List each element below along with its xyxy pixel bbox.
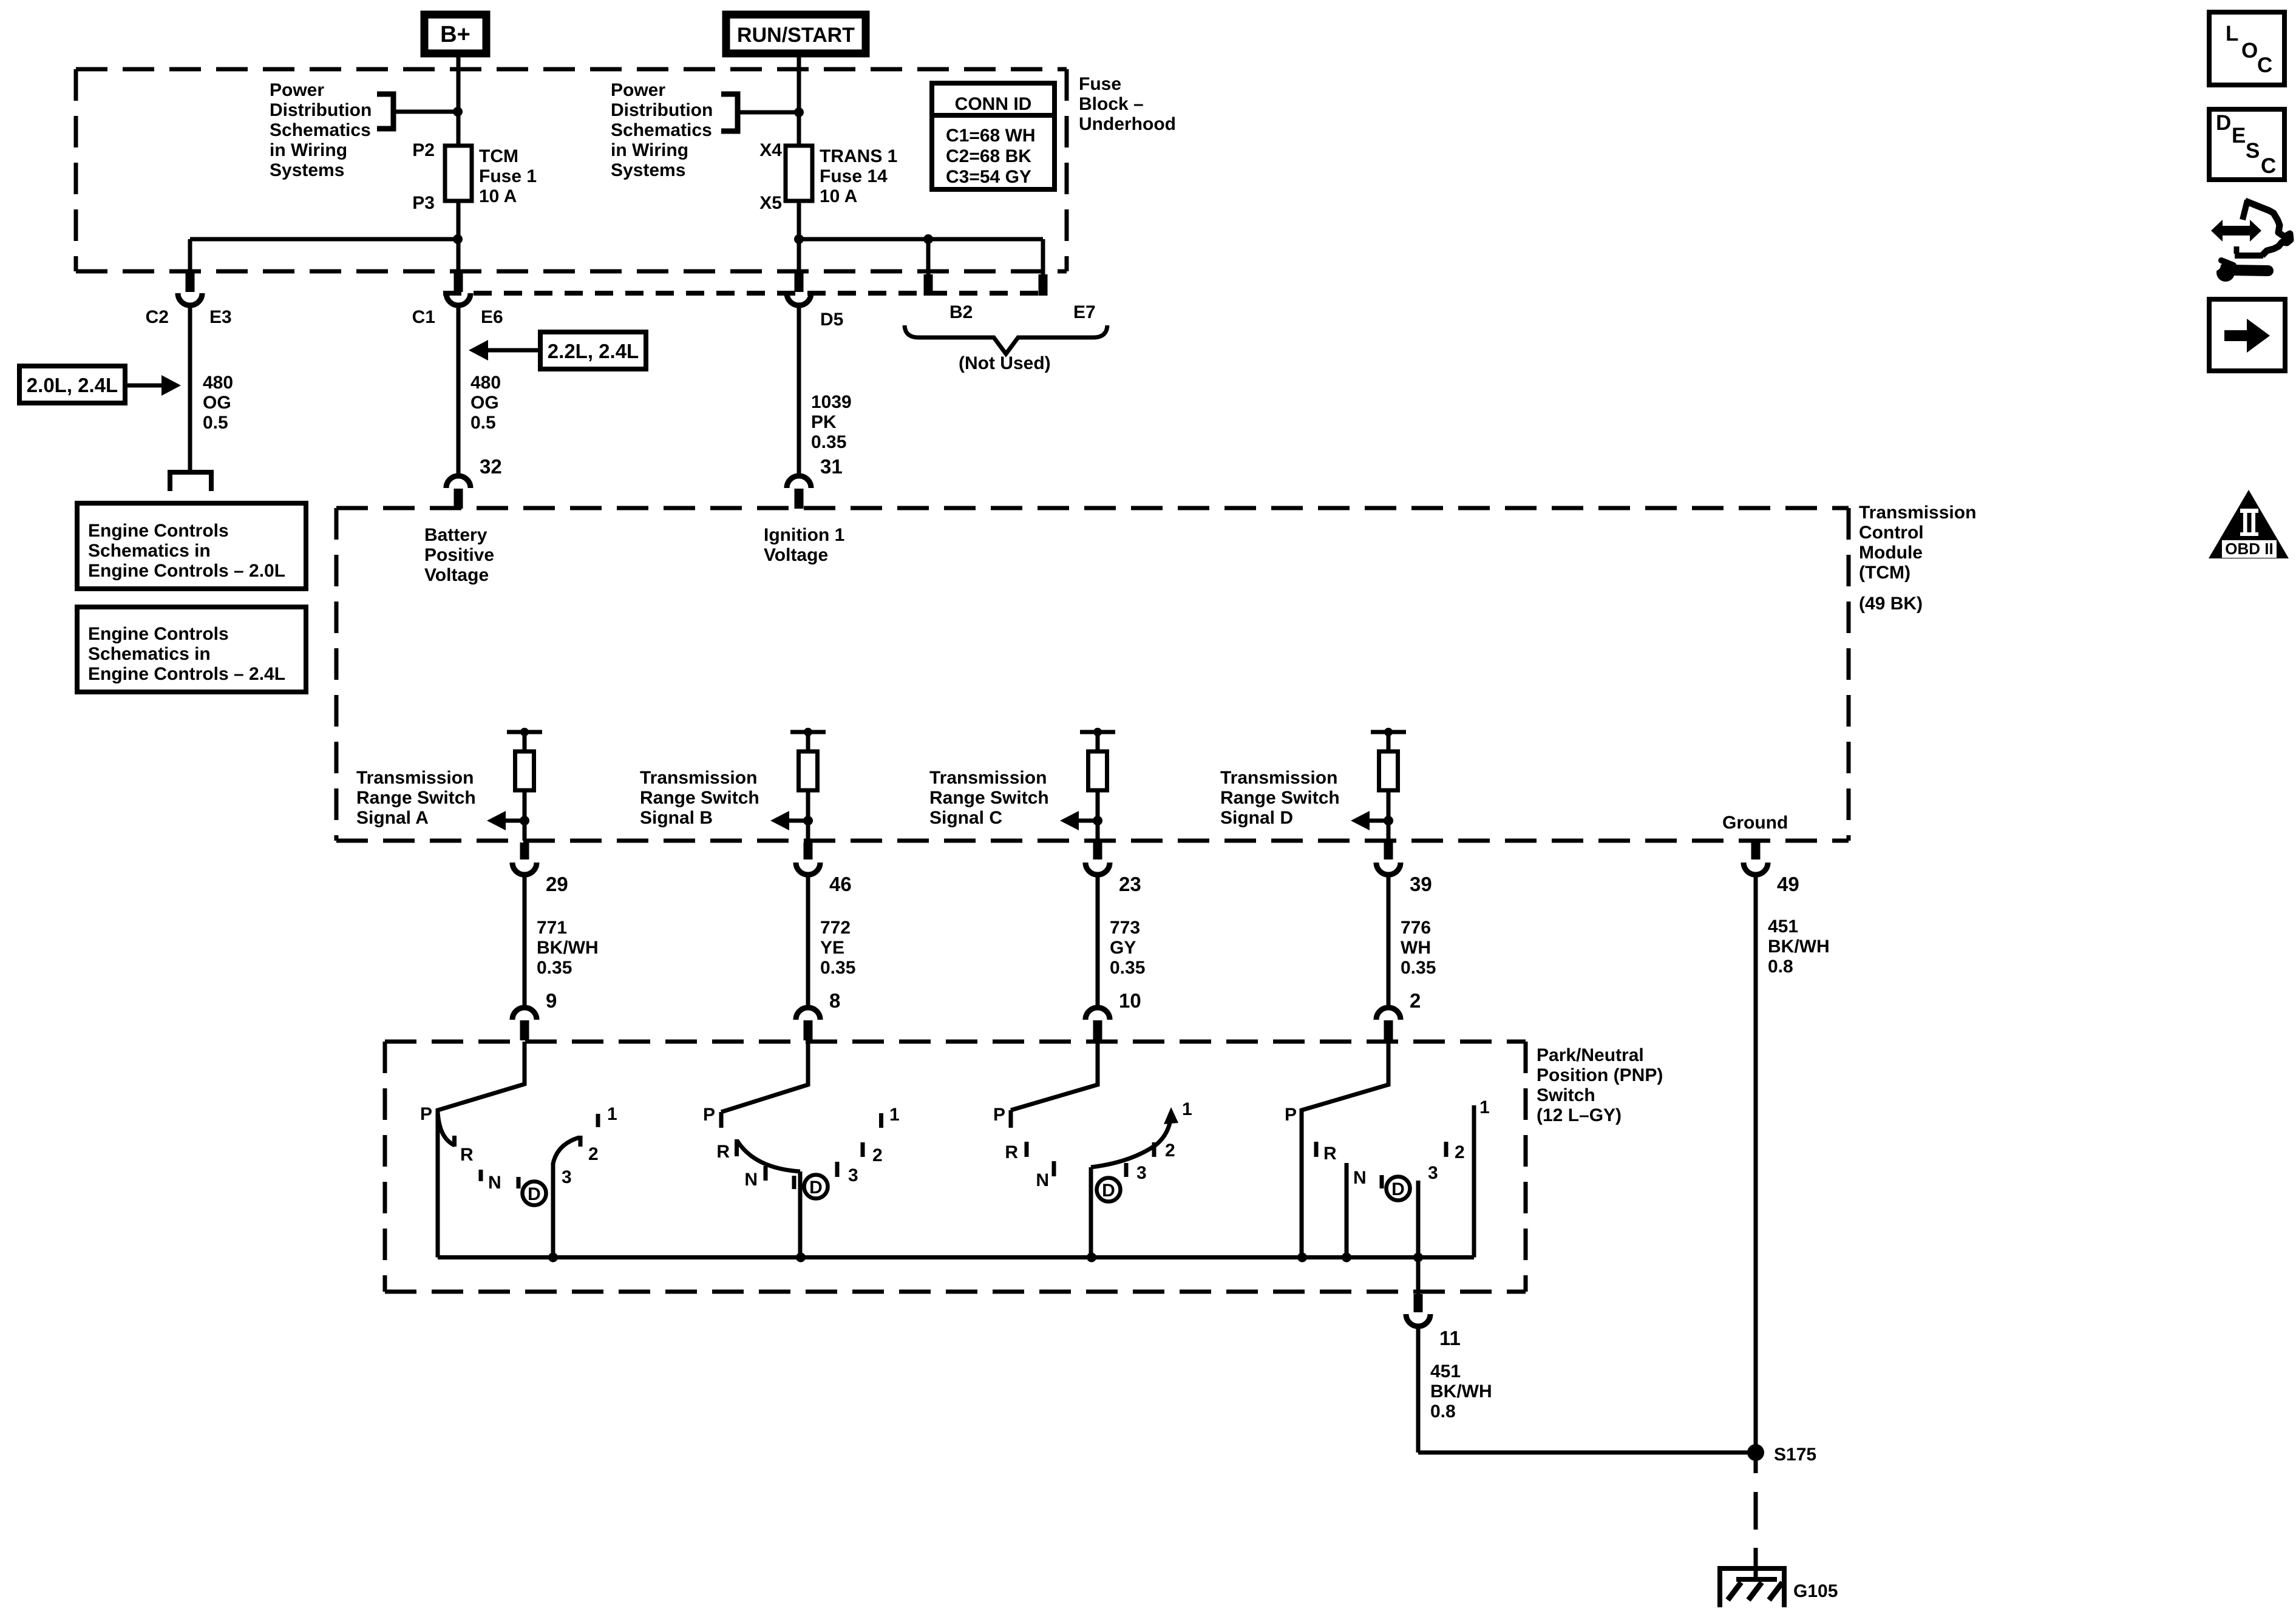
svg-text:Voltage: Voltage <box>424 565 489 585</box>
wire C2 to engine controls reference <box>188 303 192 470</box>
wire fuse P3 down <box>457 201 461 273</box>
svg-text:23: 23 <box>1119 873 1141 895</box>
junction dot signal B <box>803 816 813 825</box>
switch D contact 3 line to pin 11 <box>1416 1181 1421 1294</box>
svg-text:773: 773 <box>1110 918 1140 938</box>
svg-text:N: N <box>744 1170 758 1190</box>
resistor pull-up signal A <box>515 751 534 790</box>
svg-text:TRANS 1: TRANS 1 <box>820 146 897 166</box>
svg-text:480: 480 <box>203 373 233 393</box>
svg-text:N: N <box>488 1173 501 1193</box>
wire B+ vertical <box>457 53 461 146</box>
wire 772 YE <box>806 872 810 1006</box>
svg-text:Transmission: Transmission <box>356 768 474 788</box>
switch A circled D <box>523 1182 546 1205</box>
svg-text:480: 480 <box>470 373 501 393</box>
svg-text:Engine Controls – 2.4L: Engine Controls – 2.4L <box>88 664 285 684</box>
ground symbol G105 <box>1720 1568 1784 1607</box>
wire 451 BK/WH 0.8 from pin 11 <box>1416 1324 1421 1453</box>
svg-text:2: 2 <box>588 1144 599 1164</box>
svg-text:R: R <box>1005 1142 1018 1162</box>
switch B contact N <box>764 1166 768 1181</box>
svg-text:Fuse: Fuse <box>1079 74 1121 94</box>
resistor pull-up signal D <box>1379 751 1398 790</box>
svg-text:Engine Controls: Engine Controls <box>88 624 229 644</box>
svg-text:WH: WH <box>1401 938 1431 958</box>
wire 451 BK/WH 0.8 (ground) <box>1754 872 1758 1448</box>
connector pin 39 TCM <box>1384 842 1393 859</box>
svg-text:E: E <box>2232 124 2246 147</box>
junction dot on RUN/START wire <box>794 107 804 117</box>
connector line fuse block bottom (dotted) <box>443 291 1044 296</box>
svg-text:Range Switch: Range Switch <box>640 788 759 808</box>
junction dot B2 tap <box>923 234 933 244</box>
junction dot switch B on bus <box>796 1253 806 1263</box>
svg-text:0.8: 0.8 <box>1430 1402 1456 1422</box>
icon LOC box <box>2209 12 2284 85</box>
svg-text:X5: X5 <box>759 193 782 213</box>
svg-text:451: 451 <box>1768 917 1798 937</box>
arrow 2.2L box to wire <box>487 348 540 353</box>
svg-text:Transmission: Transmission <box>640 768 757 788</box>
svg-text:Ground: Ground <box>1722 813 1788 833</box>
svg-text:Range Switch: Range Switch <box>356 788 476 808</box>
internal connection bar signal C <box>1080 730 1115 734</box>
wrench <box>2216 263 2235 282</box>
svg-text:O: O <box>2241 39 2258 63</box>
switch B input wire <box>721 1042 808 1112</box>
bus wire PNP common <box>438 1255 1474 1259</box>
svg-text:P3: P3 <box>412 193 435 213</box>
junction dot signal D <box>1384 816 1393 825</box>
svg-text:1039: 1039 <box>811 392 852 412</box>
wire B2 drop <box>926 239 931 274</box>
resistor pull-up signal C <box>1089 751 1107 790</box>
switch B contact 1 <box>879 1113 883 1128</box>
connector pin B2 (not used) <box>924 274 933 296</box>
svg-text:2.2L, 2.4L: 2.2L, 2.4L <box>548 340 639 362</box>
svg-text:E3: E3 <box>209 307 232 327</box>
svg-text:Battery: Battery <box>424 525 487 545</box>
fuse TRANS 1 Fuse 14 X4/X5 <box>786 146 812 201</box>
junction dot fuse 14 output <box>794 234 804 244</box>
switch D circled D <box>1387 1177 1410 1201</box>
wire D5 to TCM pin 31 <box>797 303 801 475</box>
svg-text:1: 1 <box>1182 1099 1192 1119</box>
svg-text:S: S <box>2246 139 2260 163</box>
wire fuse X5 down <box>797 201 801 273</box>
svg-text:3: 3 <box>1428 1163 1438 1183</box>
svg-text:Signal D: Signal D <box>1220 808 1293 828</box>
splice S175 <box>1747 1444 1764 1461</box>
svg-text:0.35: 0.35 <box>811 432 846 452</box>
svg-text:Schematics: Schematics <box>270 120 371 140</box>
svg-text:Transmission: Transmission <box>1859 503 1976 523</box>
junction dots switch D on bus <box>1297 1253 1307 1263</box>
svg-text:BK/WH: BK/WH <box>1430 1381 1492 1402</box>
svg-text:Transmission: Transmission <box>1220 768 1337 788</box>
wire 776 WH <box>1387 872 1391 1006</box>
wire E7 drop <box>1041 239 1045 274</box>
svg-text:C1: C1 <box>412 307 435 327</box>
icon vehicle with wrench <box>2211 220 2261 242</box>
icon forward arrow box <box>2209 299 2285 371</box>
Fuse Block - Underhood dashed box <box>76 67 1067 72</box>
switch B wiper arc R-D <box>737 1141 800 1171</box>
off-page connector bracket <box>170 472 211 491</box>
svg-text:OG: OG <box>470 393 499 413</box>
connector pin 23 TCM <box>1093 842 1102 859</box>
svg-text:D: D <box>528 1184 541 1204</box>
svg-text:C: C <box>2261 154 2276 178</box>
svg-text:S175: S175 <box>1774 1445 1816 1465</box>
junction dot switch A on bus <box>548 1253 558 1263</box>
svg-text:C3=54 GY: C3=54 GY <box>946 167 1031 187</box>
svg-text:E7: E7 <box>1073 302 1096 322</box>
svg-text:G105: G105 <box>1793 1581 1838 1601</box>
svg-text:0.35: 0.35 <box>537 958 572 978</box>
switch C contact 2 <box>1152 1142 1156 1157</box>
connector C2/E3 <box>186 273 195 292</box>
svg-text:29: 29 <box>546 873 568 895</box>
switch B contact D tick <box>792 1176 796 1189</box>
svg-text:D: D <box>1102 1181 1115 1201</box>
svg-text:Power: Power <box>611 80 665 100</box>
svg-text:P: P <box>993 1105 1005 1125</box>
junction dot on B+ wire <box>453 107 463 117</box>
connector D5 <box>795 273 804 292</box>
svg-text:in Wiring: in Wiring <box>611 140 688 160</box>
svg-text:Positive: Positive <box>424 545 494 565</box>
switch D contact 2 <box>1444 1142 1449 1157</box>
svg-text:TCM: TCM <box>479 146 518 166</box>
junction dot fuse output <box>453 234 463 244</box>
svg-text:451: 451 <box>1430 1361 1461 1381</box>
wire branch to B2/E7 <box>799 237 1043 242</box>
wire 773 GY <box>1096 872 1100 1006</box>
switch A contact N <box>479 1170 483 1181</box>
svg-text:Schematics in: Schematics in <box>88 541 211 561</box>
svg-text:OBD II: OBD II <box>2225 540 2273 558</box>
svg-text:Signal A: Signal A <box>356 808 429 828</box>
wire C1 to TCM pin 32 <box>457 303 461 475</box>
svg-text:(Not Used): (Not Used) <box>959 353 1051 373</box>
icon DESC box <box>2209 109 2284 180</box>
svg-text:Distribution: Distribution <box>270 100 372 120</box>
svg-text:P: P <box>703 1105 715 1125</box>
svg-text:Underhood: Underhood <box>1079 114 1176 134</box>
svg-text:Schematics in: Schematics in <box>88 644 211 664</box>
switch B contact 3 <box>835 1162 840 1177</box>
icon OBD II triangle <box>2209 490 2289 558</box>
switch D contact N line to bus <box>1345 1163 1349 1258</box>
switch C wiper arc D-1 with arrow <box>1091 1116 1171 1167</box>
svg-text:D: D <box>2216 111 2231 135</box>
svg-text:C1=68 WH: C1=68 WH <box>946 126 1036 146</box>
internal connection bar signal B <box>790 730 826 734</box>
svg-text:Signal B: Signal B <box>640 808 713 828</box>
svg-text:CONN ID: CONN ID <box>955 94 1032 114</box>
switch B contact 2 <box>861 1142 865 1157</box>
wire 771 BK/WH <box>523 872 527 1006</box>
svg-text:46: 46 <box>829 873 852 895</box>
svg-text:2: 2 <box>1165 1141 1175 1161</box>
svg-text:0.35: 0.35 <box>1401 958 1436 978</box>
svg-text:0.35: 0.35 <box>1110 958 1145 978</box>
svg-text:1: 1 <box>607 1104 617 1124</box>
bracket to B+ wire <box>377 94 393 129</box>
svg-text:32: 32 <box>480 455 502 478</box>
connector pin E7 (not used) <box>1039 274 1048 296</box>
svg-text:P: P <box>1285 1105 1297 1125</box>
svg-text:Range Switch: Range Switch <box>929 788 1049 808</box>
terminal box B+ <box>424 15 486 53</box>
svg-text:2: 2 <box>1410 989 1421 1012</box>
switch B circled D <box>804 1175 828 1199</box>
switch D contact R <box>1314 1142 1319 1157</box>
svg-text:Park/Neutral: Park/Neutral <box>1537 1045 1644 1065</box>
svg-text:BK/WH: BK/WH <box>1768 937 1830 957</box>
TCM module dashed box <box>336 506 1849 510</box>
svg-text:(TCM): (TCM) <box>1859 563 1911 583</box>
svg-text:OG: OG <box>203 393 231 413</box>
svg-text:D: D <box>1391 1179 1405 1199</box>
svg-text:C2: C2 <box>146 307 169 327</box>
switch A input wire <box>438 1042 525 1258</box>
switch B drop to bus <box>798 1171 803 1258</box>
svg-text:P2: P2 <box>412 140 435 160</box>
svg-text:11: 11 <box>1439 1327 1461 1349</box>
switch C drop to bus <box>1089 1167 1093 1258</box>
switch C contact N <box>1052 1161 1056 1176</box>
svg-text:31: 31 <box>820 455 843 478</box>
svg-text:PK: PK <box>811 412 837 432</box>
Park/Neutral Position switch dashed box <box>385 1040 1526 1044</box>
switch A contact D tick <box>517 1177 521 1188</box>
signal arrow D <box>1368 819 1388 823</box>
svg-text:RUN/START: RUN/START <box>737 24 855 47</box>
svg-text:8: 8 <box>829 989 840 1012</box>
fuse TCM Fuse 1 P2/P3 <box>445 146 472 201</box>
svg-text:D: D <box>809 1178 823 1198</box>
svg-text:772: 772 <box>820 918 851 938</box>
reference box Engine Controls 2.0L <box>77 503 306 589</box>
reference box Engine Controls 2.4L <box>77 607 306 692</box>
svg-text:YE: YE <box>820 938 844 958</box>
svg-text:Range Switch: Range Switch <box>1220 788 1340 808</box>
svg-text:R: R <box>1323 1144 1337 1164</box>
switch C input wire <box>1011 1042 1098 1110</box>
connector pin 29 TCM <box>520 842 529 859</box>
switch A contact 1 <box>596 1114 600 1127</box>
svg-text:R: R <box>460 1145 474 1165</box>
svg-text:2.0L, 2.4L: 2.0L, 2.4L <box>27 374 118 396</box>
svg-text:B+: B+ <box>440 22 470 47</box>
svg-text:9: 9 <box>546 989 557 1012</box>
terminal box RUN/START <box>726 15 866 53</box>
svg-text:X4: X4 <box>759 140 782 160</box>
svg-text:Signal C: Signal C <box>929 808 1002 828</box>
svg-text:0.8: 0.8 <box>1768 957 1793 977</box>
svg-text:10 A: 10 A <box>479 186 517 206</box>
svg-text:P: P <box>420 1104 432 1124</box>
svg-text:Block –: Block – <box>1079 94 1144 114</box>
svg-text:GY: GY <box>1110 938 1136 958</box>
svg-text:Power: Power <box>270 80 324 100</box>
connector pin 11 PNP switch <box>1414 1294 1423 1312</box>
svg-text:3: 3 <box>562 1167 572 1187</box>
internal connection bar signal A <box>507 730 542 734</box>
svg-text:(12 L–GY): (12 L–GY) <box>1537 1105 1622 1125</box>
signal arrow B <box>788 819 808 823</box>
svg-text:L: L <box>2226 22 2238 46</box>
svg-text:0.5: 0.5 <box>470 413 496 433</box>
wire to splice S175 <box>1418 1451 1756 1455</box>
junction dot signal C <box>1093 816 1102 825</box>
svg-text:Ignition 1: Ignition 1 <box>764 525 844 545</box>
signal arrow A <box>504 819 525 823</box>
wire RUN/START vertical <box>797 53 801 146</box>
switch A contact 3 line to bus <box>553 1137 579 1257</box>
svg-text:Transmission: Transmission <box>929 768 1047 788</box>
svg-text:1: 1 <box>889 1105 900 1125</box>
switch A wiper arc P-R <box>438 1112 455 1145</box>
svg-text:(49 BK): (49 BK) <box>1859 594 1923 614</box>
svg-text:0.35: 0.35 <box>820 958 855 978</box>
svg-text:B2: B2 <box>949 302 973 322</box>
junction dot signal A <box>520 816 529 825</box>
bracket to RUN/START wire <box>721 94 738 131</box>
svg-text:0.5: 0.5 <box>203 413 228 433</box>
svg-text:Systems: Systems <box>611 160 685 180</box>
switch C contact 3 tick <box>1124 1163 1129 1177</box>
arrow 2.0L box to wire <box>125 384 163 388</box>
svg-text:10: 10 <box>1119 989 1141 1012</box>
svg-text:3: 3 <box>1136 1163 1147 1183</box>
wire S175 to ground (dashed) <box>1754 1453 1758 1473</box>
svg-text:Engine Controls – 2.0L: Engine Controls – 2.0L <box>88 561 285 581</box>
CONN ID table <box>932 83 1055 189</box>
connector pin 46 TCM <box>804 842 813 859</box>
connector pin 49 TCM ground <box>1751 842 1761 859</box>
svg-text:3: 3 <box>848 1165 858 1185</box>
connector C1/E6 <box>454 273 463 292</box>
wire branch to C2 drop <box>190 237 458 242</box>
svg-text:D5: D5 <box>820 310 843 330</box>
svg-text:2: 2 <box>1455 1142 1465 1162</box>
junction dot switch C on bus <box>1087 1253 1096 1263</box>
svg-text:Distribution: Distribution <box>611 100 713 120</box>
svg-text:Schematics: Schematics <box>611 120 712 140</box>
svg-text:in Wiring: in Wiring <box>270 140 347 160</box>
svg-text:776: 776 <box>1401 918 1431 938</box>
svg-text:Switch: Switch <box>1537 1085 1595 1105</box>
svg-text:BK/WH: BK/WH <box>537 938 599 958</box>
resistor pull-up signal B <box>799 751 818 790</box>
svg-text:N: N <box>1353 1168 1367 1188</box>
svg-text:Control: Control <box>1859 523 1924 543</box>
svg-text:Fuse 1: Fuse 1 <box>479 166 537 186</box>
brace B2-E7 not used <box>905 325 1107 354</box>
switch D contact D tick <box>1380 1175 1384 1188</box>
svg-text:Voltage: Voltage <box>764 545 828 565</box>
svg-text:N: N <box>1036 1170 1049 1190</box>
svg-text:R: R <box>716 1142 730 1162</box>
svg-text:C2=68 BK: C2=68 BK <box>946 146 1031 166</box>
internal connection bar signal D <box>1371 730 1406 734</box>
svg-text:39: 39 <box>1410 873 1432 895</box>
svg-text:10 A: 10 A <box>820 186 857 206</box>
svg-text:1: 1 <box>1479 1097 1490 1117</box>
switch C circled D <box>1097 1178 1121 1202</box>
svg-text:Systems: Systems <box>270 160 344 180</box>
svg-text:E6: E6 <box>481 307 503 327</box>
signal arrow C <box>1078 819 1098 823</box>
switch D contact 1 line to bus <box>1472 1105 1476 1258</box>
svg-text:Fuse 14: Fuse 14 <box>820 166 888 186</box>
svg-text:2: 2 <box>872 1145 883 1165</box>
svg-text:771: 771 <box>537 918 567 938</box>
label 2.2L, 2.4L box <box>540 332 646 369</box>
svg-text:C: C <box>2257 53 2272 77</box>
svg-text:Position (PNP): Position (PNP) <box>1537 1065 1663 1085</box>
svg-text:49: 49 <box>1777 873 1799 895</box>
svg-text:Engine Controls: Engine Controls <box>88 521 229 541</box>
label 2.0L, 2.4L box <box>19 366 125 403</box>
svg-text:Module: Module <box>1859 543 1923 563</box>
switch D input wire <box>1302 1042 1388 1258</box>
